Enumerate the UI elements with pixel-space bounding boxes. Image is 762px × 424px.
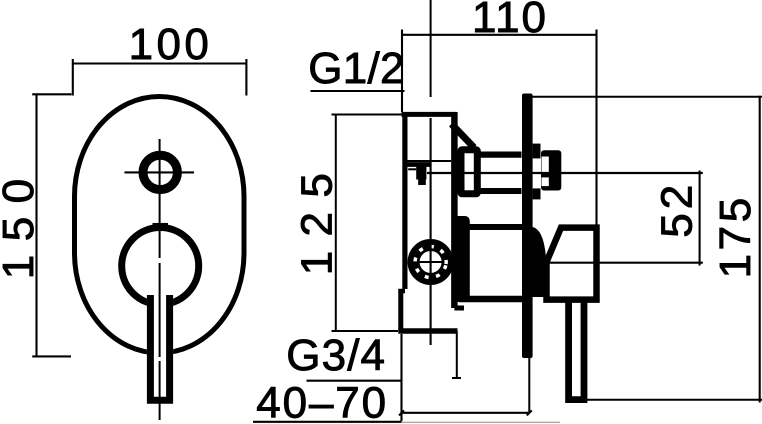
svg-text:125: 125 [293, 173, 342, 275]
svg-text:100: 100 [129, 20, 209, 69]
svg-text:40–70: 40–70 [256, 379, 386, 424]
svg-text:150: 150 [0, 179, 43, 279]
svg-text:110: 110 [472, 0, 546, 42]
svg-text:175: 175 [711, 198, 760, 279]
svg-text:52: 52 [652, 185, 701, 238]
svg-text:G1/2: G1/2 [308, 44, 404, 93]
svg-text:G3/4: G3/4 [286, 331, 385, 380]
